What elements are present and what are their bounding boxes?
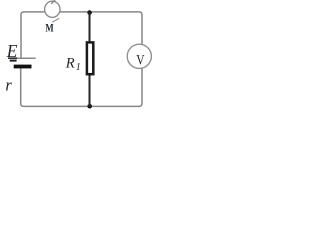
meter M tail mark bottom-right	[52, 18, 59, 22]
battery cell E: thin long plate	[8, 57, 17, 59]
svg-text:E: E	[6, 41, 18, 61]
svg-text:r: r	[5, 76, 12, 95]
battery thin plate right part	[17, 57, 36, 59]
wire middle branch upper (junction to resistor)	[89, 12, 91, 42]
wire middle branch lower (resistor to bottom junction)	[89, 75, 91, 107]
meter M circle	[45, 1, 60, 17]
svg-text:R: R	[65, 55, 75, 71]
wire top-right: from motor circle to top-right corner down to voltmeter	[59, 12, 142, 45]
node dot bottom junction	[87, 104, 92, 109]
resistor R1 body	[87, 42, 93, 74]
wire bottom loop: voltmeter bottom, right wire, bottom wire, left lower wire to battery	[21, 68, 142, 106]
svg-text:1: 1	[76, 62, 81, 73]
svg-text:V: V	[136, 53, 145, 69]
meter M needle tick top	[51, 0, 55, 4]
wire top-left: top wire left segment + left wire down to battery	[21, 12, 45, 58]
battery cell E: thick short plate	[14, 65, 32, 69]
label E underline bar	[10, 60, 17, 62]
svg-text:M: M	[45, 22, 53, 35]
node dot top junction	[87, 10, 92, 15]
voltmeter V circle	[127, 44, 151, 68]
